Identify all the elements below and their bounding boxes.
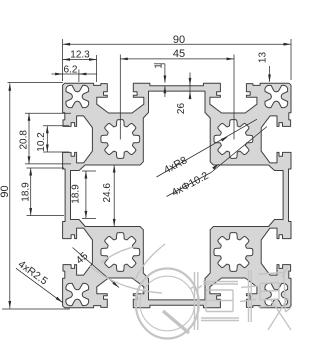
svg-text:13: 13 [258, 52, 269, 64]
svg-text:6.2: 6.2 [64, 64, 78, 75]
svg-text:24.6: 24.6 [102, 183, 113, 203]
svg-text:90: 90 [173, 34, 185, 46]
watermark logo circle outer [136, 269, 199, 339]
dimension 24.6 (arm width) [113, 165, 115, 226]
dimension 18.9 (left outer) [30, 168, 32, 216]
svg-text:26: 26 [176, 103, 187, 115]
svg-text:45: 45 [173, 48, 185, 60]
svg-text:10.2: 10.2 [36, 132, 47, 152]
svg-text:20.8: 20.8 [19, 130, 30, 150]
watermark swoosh arc small [101, 247, 134, 263]
dimension 45 (top, slot pitch) [120, 58, 234, 60]
dimension 12.3 (top left) [63, 59, 97, 61]
svg-text:90: 90 [0, 185, 11, 197]
watermark chinese character 1 [190, 272, 239, 330]
watermark swoosh arc upper [135, 244, 165, 280]
dimension 20.8 (left upper) [28, 113, 30, 164]
dimension 90 (left overall height) [9, 83, 11, 308]
dimension 18.9 (left arm mouth) [85, 171, 87, 218]
svg-text:12.3: 12.3 [70, 49, 90, 60]
dimension 90 (top overall width) [63, 43, 291, 45]
dimension 6.2 (top left) [52, 73, 97, 75]
watermark logo Q tail [163, 311, 189, 333]
watermark chinese character 2 [240, 265, 291, 330]
watermark swoosh arc lower [90, 266, 162, 293]
watermark logo circle inner [140, 276, 195, 331]
svg-text:18.9: 18.9 [71, 184, 82, 204]
svg-text:18.9: 18.9 [21, 182, 32, 202]
aluminum profile cross-section body [63, 83, 291, 308]
dimension 10.2 (left slot opening) [46, 126, 48, 152]
